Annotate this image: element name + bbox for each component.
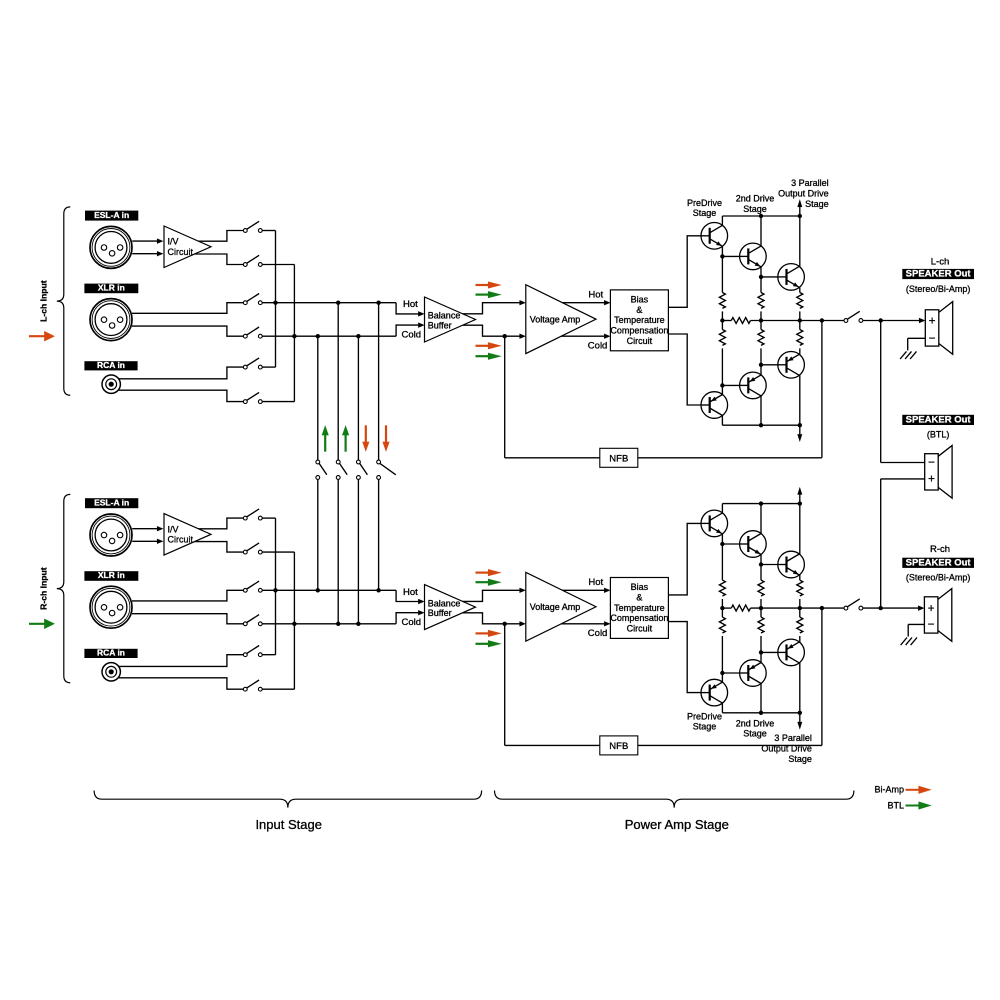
svg-text:3 Parallel: 3 Parallel [774, 733, 812, 743]
svg-text:RCA in: RCA in [97, 647, 125, 657]
svg-text:Stage: Stage [788, 754, 812, 764]
svg-text:&: & [636, 305, 642, 315]
svg-text:BTL: BTL [887, 801, 904, 811]
svg-text:Stage: Stage [805, 199, 829, 209]
svg-text:Cold: Cold [588, 340, 608, 351]
svg-text:XLR in: XLR in [98, 570, 125, 580]
svg-text:−: − [928, 457, 935, 469]
svg-text:L-ch Input: L-ch Input [39, 280, 49, 322]
svg-text:Stage: Stage [743, 204, 767, 214]
svg-text:Input Stage: Input Stage [255, 817, 322, 832]
svg-text:ESL-A in: ESL-A in [94, 210, 129, 220]
svg-text:PreDrive: PreDrive [687, 198, 722, 208]
svg-text:Bias: Bias [631, 294, 649, 304]
svg-text:2nd Drive: 2nd Drive [736, 718, 775, 728]
svg-text:I/V: I/V [168, 237, 179, 247]
svg-text:R-ch Input: R-ch Input [39, 567, 49, 610]
svg-text:NFB: NFB [609, 741, 628, 752]
svg-text:3 Parallel: 3 Parallel [791, 178, 829, 188]
svg-text:XLR in: XLR in [98, 283, 125, 293]
svg-text:Hot: Hot [403, 299, 418, 310]
svg-text:Stage: Stage [743, 729, 767, 739]
svg-text:Voltage Amp: Voltage Amp [530, 314, 581, 324]
svg-text:ESL-A in: ESL-A in [94, 498, 129, 508]
svg-text:(BTL): (BTL) [927, 429, 950, 439]
svg-text:SPEAKER Out: SPEAKER Out [906, 557, 972, 568]
svg-text:Bias: Bias [631, 582, 649, 592]
svg-text:−: − [928, 619, 935, 631]
svg-text:Buffer: Buffer [428, 321, 452, 331]
svg-text:Balance: Balance [428, 598, 461, 608]
svg-text:+: + [928, 603, 935, 615]
svg-text:Cold: Cold [402, 617, 422, 628]
svg-text:R-ch: R-ch [930, 544, 950, 555]
svg-text:−: − [929, 333, 936, 345]
svg-text:Stage: Stage [693, 722, 717, 732]
svg-text:RCA in: RCA in [97, 360, 125, 370]
svg-text:Circuit: Circuit [168, 247, 194, 257]
svg-text:Hot: Hot [588, 577, 603, 588]
svg-text:Cold: Cold [402, 330, 422, 341]
svg-text:PreDrive: PreDrive [687, 711, 722, 721]
svg-text:I/V: I/V [168, 524, 179, 534]
svg-text:Bi-Amp: Bi-Amp [874, 785, 904, 795]
svg-text:Circuit: Circuit [627, 336, 653, 346]
svg-text:Power Amp Stage: Power Amp Stage [625, 817, 729, 832]
svg-text:SPEAKER Out: SPEAKER Out [906, 414, 972, 425]
svg-text:(Stereo/Bi-Amp): (Stereo/Bi-Amp) [906, 573, 971, 583]
svg-text:Circuit: Circuit [627, 624, 653, 634]
svg-text:(Stereo/Bi-Amp): (Stereo/Bi-Amp) [906, 284, 971, 294]
svg-text:Balance: Balance [428, 311, 461, 321]
svg-text:Buffer: Buffer [428, 608, 452, 618]
svg-text:Hot: Hot [403, 587, 418, 598]
svg-text:+: + [929, 315, 936, 327]
svg-text:Hot: Hot [588, 290, 603, 301]
svg-text:Cold: Cold [588, 628, 608, 639]
svg-text:Compensation: Compensation [610, 326, 668, 336]
svg-text:NFB: NFB [609, 453, 628, 464]
svg-text:+: + [928, 474, 935, 486]
svg-text:Temperature: Temperature [614, 603, 665, 613]
svg-text:2nd Drive: 2nd Drive [736, 194, 775, 204]
svg-text:Temperature: Temperature [614, 315, 665, 325]
svg-text:&: & [636, 592, 642, 602]
svg-text:Stage: Stage [693, 208, 717, 218]
svg-text:Output Drive: Output Drive [778, 188, 829, 198]
svg-text:Voltage Amp: Voltage Amp [530, 602, 581, 612]
svg-text:Compensation: Compensation [610, 613, 668, 623]
svg-text:L-ch: L-ch [931, 256, 949, 267]
svg-text:Circuit: Circuit [168, 535, 194, 545]
svg-text:SPEAKER Out: SPEAKER Out [906, 269, 972, 280]
